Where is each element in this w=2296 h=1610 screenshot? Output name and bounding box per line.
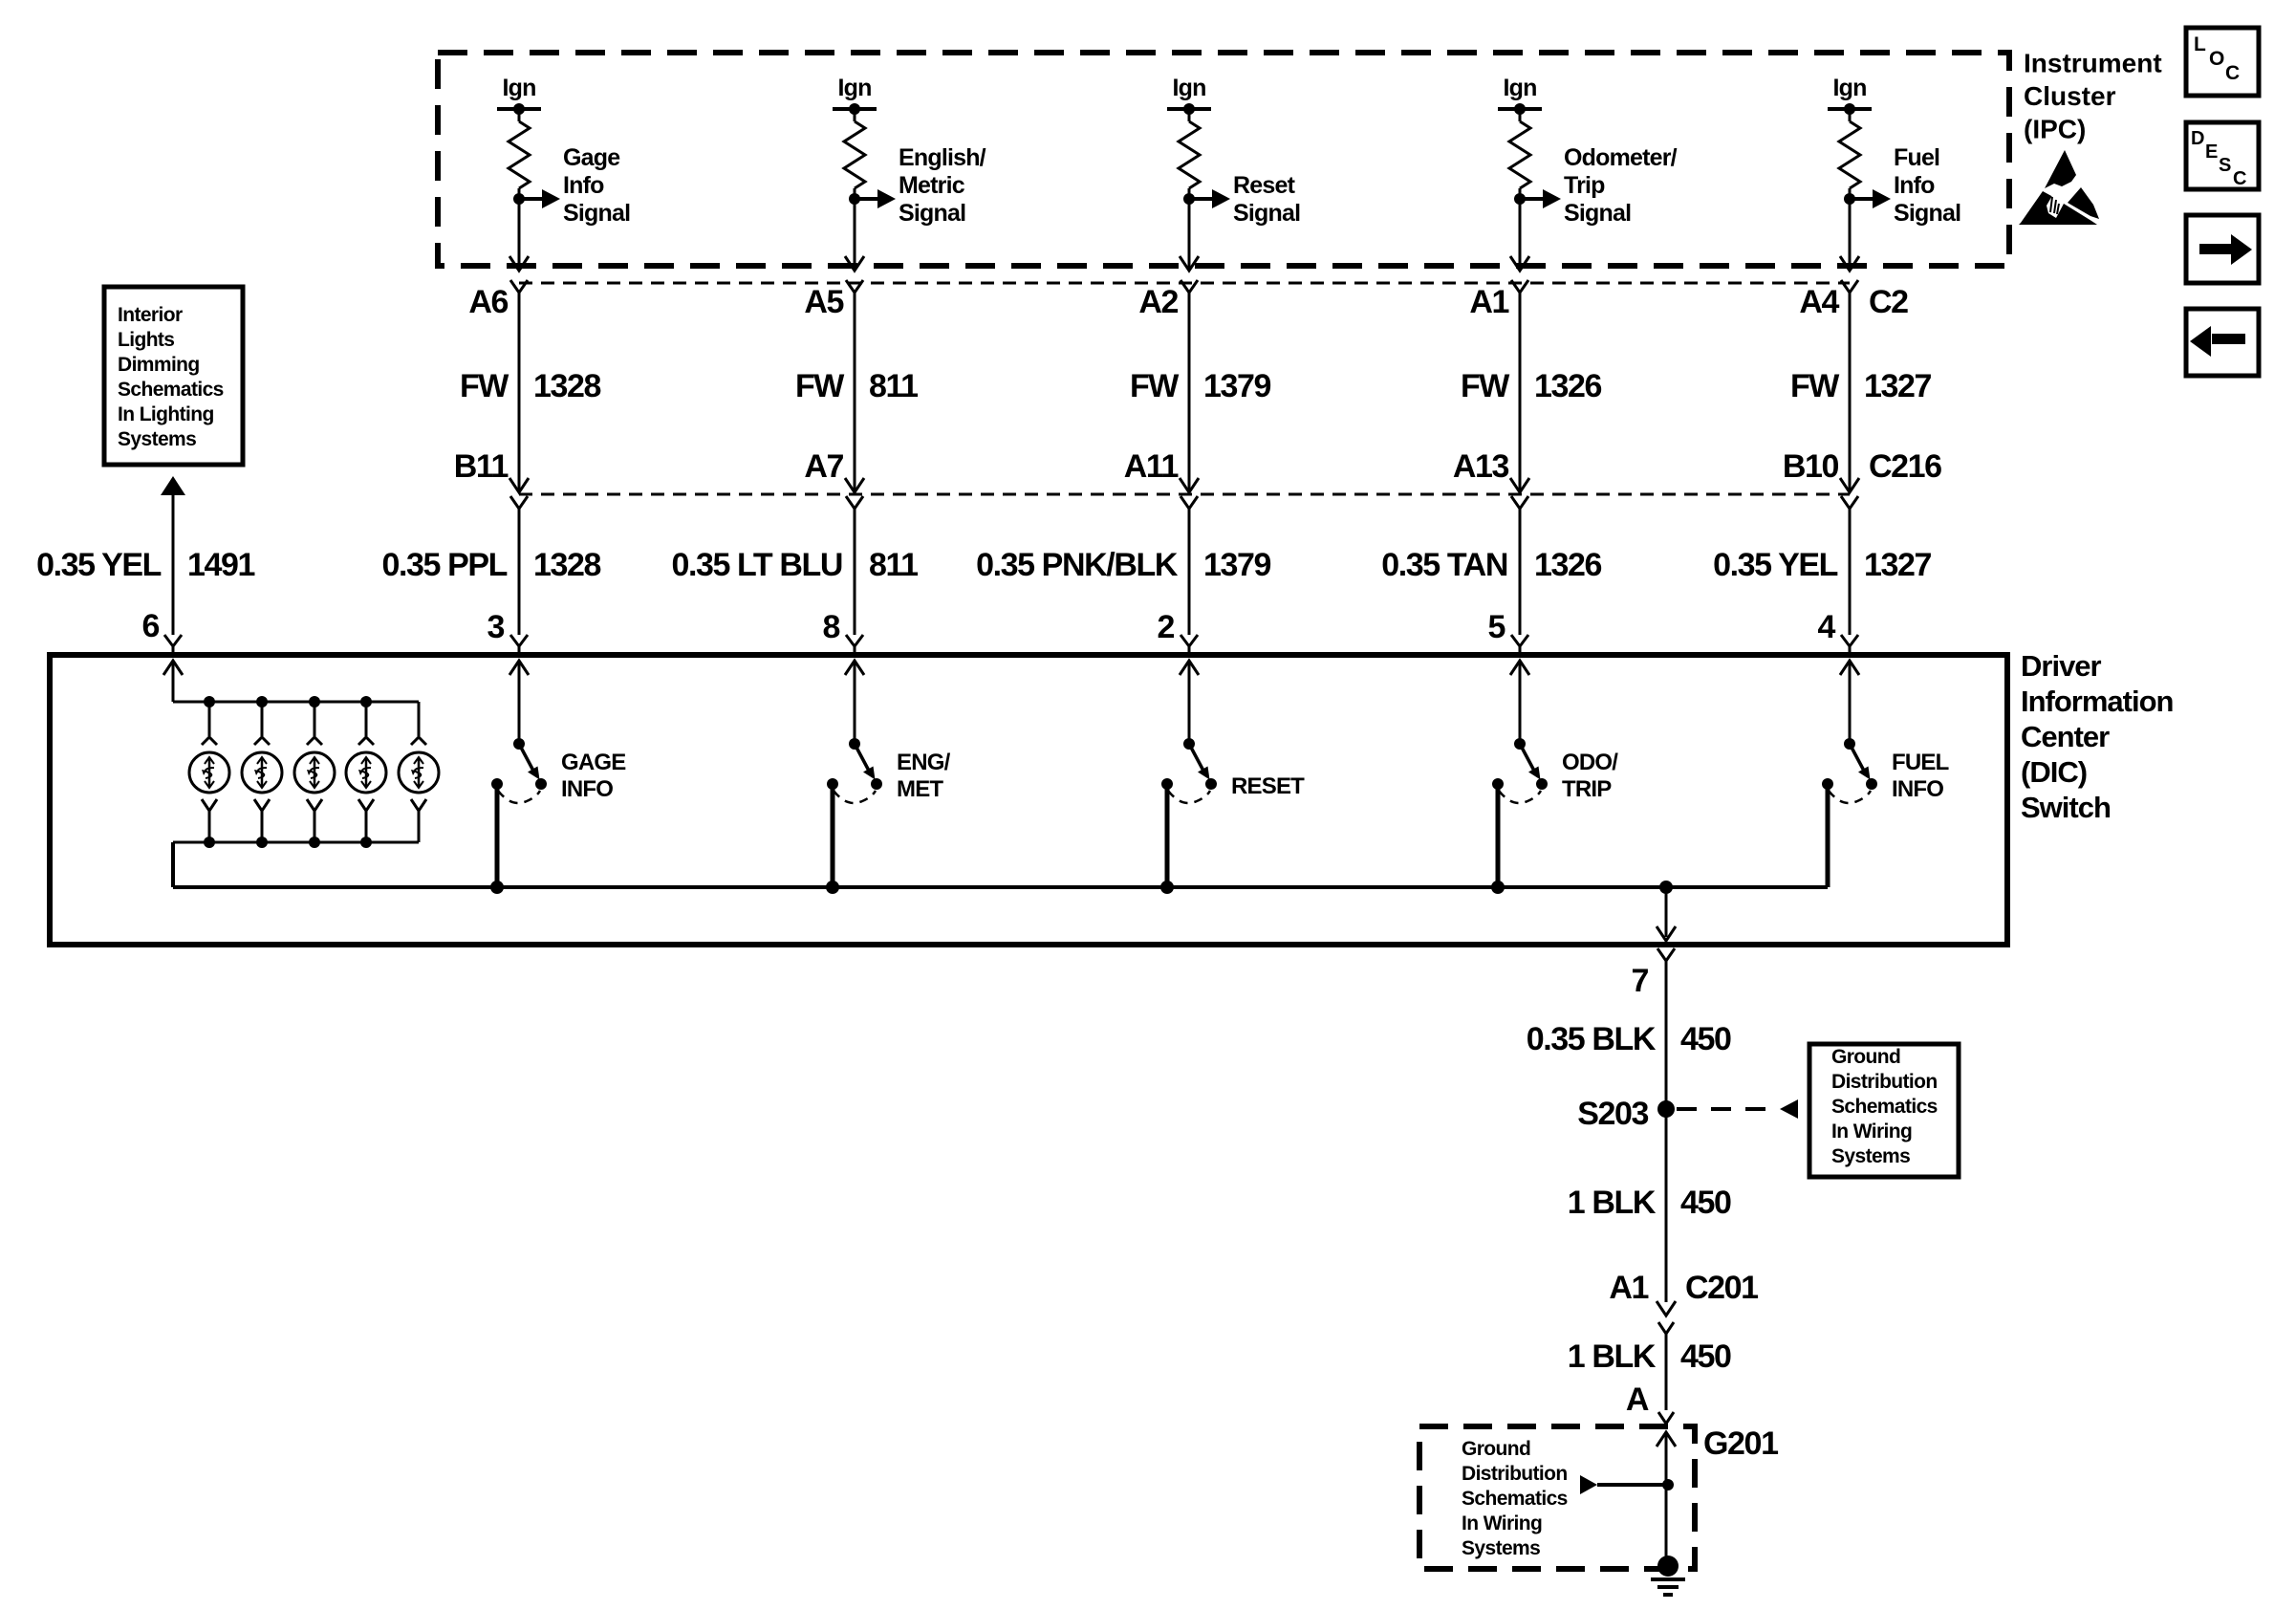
svg-text:A1: A1 — [1469, 284, 1508, 320]
svg-text:0.35 TAN: 0.35 TAN — [1381, 547, 1507, 583]
svg-text:A4: A4 — [1799, 284, 1839, 320]
svg-text:FW: FW — [1461, 368, 1510, 404]
svg-text:MET: MET — [897, 776, 943, 802]
svg-text:L: L — [2194, 33, 2206, 55]
pin A7 fork below C216 line — [846, 496, 863, 509]
svg-text:Fuel: Fuel — [1894, 144, 1939, 171]
svg-text:FW: FW — [1130, 368, 1180, 404]
signal tap arrow and label (Gage Info Signal) — [513, 144, 630, 227]
label FW — [1130, 368, 1180, 404]
wire 0.35 YEL 1327 (column 5) — [1849, 509, 1852, 635]
pin label A7 — [804, 448, 843, 485]
label 1327 (FW) — [1864, 368, 1932, 404]
svg-text:811: 811 — [869, 547, 918, 583]
interior lights box text — [118, 304, 224, 450]
pin label B10 — [1783, 448, 1839, 485]
svg-text:Schematics: Schematics — [1831, 1096, 1938, 1118]
resistor R4 inside IPC — [1509, 109, 1530, 199]
instrument cluster (IPC) dashed outline box — [438, 53, 2009, 266]
ground distribution reference box G201 (dashed) — [1419, 1426, 1695, 1569]
pin 7 drop inside DIC — [1657, 887, 1676, 941]
icon box back arrow — [2186, 309, 2259, 376]
svg-text:Ground: Ground — [1831, 1046, 1900, 1068]
svg-text:Signal: Signal — [1894, 200, 1960, 227]
svg-text:FW: FW — [1790, 368, 1840, 404]
label 7 — [1631, 963, 1648, 999]
svg-text:G201: G201 — [1703, 1425, 1778, 1462]
connector C2 dashed interface line — [519, 282, 1850, 285]
label C2 — [1869, 284, 1908, 320]
G201 reference arrow — [1580, 1475, 1674, 1494]
svg-text:A1: A1 — [1609, 1270, 1648, 1306]
label C216 — [1869, 448, 1941, 485]
pin B11 fork below C216 line — [510, 496, 528, 509]
DIC common bus wire — [173, 784, 1828, 894]
svg-text:Signal: Signal — [1233, 200, 1300, 227]
svg-text:1 BLK: 1 BLK — [1568, 1338, 1657, 1375]
svg-text:Distribution: Distribution — [1462, 1463, 1568, 1485]
resistor R1 inside IPC — [509, 109, 530, 199]
label G201 — [1703, 1425, 1778, 1462]
svg-text:A11: A11 — [1124, 448, 1179, 485]
node Ign (column 5) — [1828, 75, 1872, 115]
svg-text:Signal: Signal — [899, 200, 965, 227]
illumination lamp 5 in DIC switch — [399, 702, 439, 842]
pin number 6 — [141, 608, 159, 644]
label 450 (0.35 BLK) — [1680, 1021, 1731, 1057]
svg-text:Reset: Reset — [1233, 172, 1296, 199]
svg-text:(IPC): (IPC) — [2024, 115, 2086, 144]
label 0.35 PPL — [381, 547, 507, 583]
signal tap arrow and label (Reset Signal) — [1183, 172, 1300, 227]
label 1 BLK (lower) — [1568, 1338, 1657, 1375]
connector C216 dashed interface line — [519, 493, 1850, 496]
pin label A2 — [1138, 284, 1178, 320]
pin A13 fork below C216 line — [1511, 496, 1528, 509]
label 0.35 TAN — [1381, 547, 1507, 583]
lamp bus drop to common bus — [171, 842, 175, 887]
node Ign (column 3) — [1167, 75, 1211, 115]
pin B10 fork below C216 line — [1841, 496, 1858, 509]
DIC pin 6 fork — [164, 635, 182, 655]
node Ign (column 4) — [1498, 75, 1542, 115]
svg-text:S203: S203 — [1577, 1096, 1648, 1132]
svg-text:Info: Info — [1894, 172, 1935, 199]
label 1327 (harness) — [1864, 547, 1932, 583]
svg-text:D: D — [2191, 128, 2204, 149]
label 0.35 LT BLU — [671, 547, 842, 583]
svg-text:1326: 1326 — [1534, 547, 1602, 583]
label FW — [1461, 368, 1510, 404]
svg-text:0.35 PNK/BLK: 0.35 PNK/BLK — [976, 547, 1179, 583]
svg-text:0.35 LT BLU: 0.35 LT BLU — [671, 547, 842, 583]
pin number 3 — [487, 609, 504, 645]
svg-text:Odometer/: Odometer/ — [1564, 144, 1678, 171]
label 450 (lower 1 BLK) — [1680, 1338, 1731, 1375]
svg-text:ODO/: ODO/ — [1562, 750, 1618, 775]
DIC pin 7 fork — [1657, 948, 1675, 961]
svg-text:5: 5 — [1487, 609, 1505, 645]
svg-text:1328: 1328 — [533, 368, 601, 404]
label 450 (upper 1 BLK) — [1680, 1185, 1731, 1221]
svg-text:Trip: Trip — [1564, 172, 1605, 199]
svg-text:Systems: Systems — [1462, 1537, 1540, 1559]
G201 internal arrow and wire — [1657, 1432, 1676, 1558]
pin A11 fork below C216 line — [1180, 496, 1198, 509]
svg-text:7: 7 — [1631, 963, 1648, 999]
svg-text:1327: 1327 — [1864, 547, 1932, 583]
svg-text:In Lighting: In Lighting — [118, 403, 214, 425]
wire FW 1327 (column 5) — [1840, 293, 1859, 492]
svg-text:Distribution: Distribution — [1831, 1071, 1938, 1093]
label Driver Information Center (DIC) Switch — [2021, 649, 2174, 824]
label FW — [460, 368, 509, 404]
lamp top bus — [173, 701, 419, 704]
label 811 (harness) — [869, 547, 918, 583]
pin label A1 — [1469, 284, 1508, 320]
pin label A5 — [804, 284, 843, 320]
connector C201 pin A1 fork — [1658, 1322, 1674, 1334]
wire FW 1326 (column 4) — [1510, 293, 1529, 492]
switch S2 (ENG//MET) in DIC — [827, 661, 951, 887]
svg-text:2: 2 — [1157, 609, 1174, 645]
signal tap arrow and label (English/ Metric Signal) — [849, 144, 986, 227]
node Ign (column 2) — [833, 75, 877, 115]
svg-text:S: S — [2219, 155, 2231, 176]
svg-text:GAGE: GAGE — [561, 750, 626, 775]
svg-text:Ground: Ground — [1462, 1438, 1530, 1460]
DIC pin 8 fork — [846, 635, 863, 655]
illumination lamp 2 in DIC switch — [242, 696, 282, 848]
pin 6 riser inside DIC with arrow — [163, 661, 183, 702]
label A (G201 pin) — [1626, 1382, 1649, 1418]
svg-text:E: E — [2205, 141, 2218, 163]
svg-text:Switch: Switch — [2021, 791, 2111, 824]
dashed reference arrow from S203 — [1677, 1099, 1798, 1119]
svg-text:A13: A13 — [1453, 448, 1509, 485]
signal tap arrow and label (Odometer/ Trip Signal) — [1514, 144, 1678, 227]
svg-text:Systems: Systems — [118, 428, 196, 450]
svg-text:0.35 YEL: 0.35 YEL — [1713, 547, 1838, 583]
svg-text:Schematics: Schematics — [118, 379, 224, 401]
svg-text:Gage: Gage — [563, 144, 620, 171]
pin number 8 — [822, 609, 839, 645]
svg-text:TRIP: TRIP — [1562, 776, 1612, 802]
svg-text:0.35 PPL: 0.35 PPL — [381, 547, 507, 583]
driver information center (DIC) switch box — [50, 655, 2007, 945]
label 1328 (FW) — [533, 368, 601, 404]
svg-text:In Wiring: In Wiring — [1831, 1120, 1912, 1142]
switch S5 (FUEL/INFO) in DIC — [1822, 661, 1949, 887]
label 1326 (FW) — [1534, 368, 1602, 404]
icon box DESC — [2186, 122, 2259, 189]
wire 0.35 PNK/BLK 1379 (column 3) — [1188, 509, 1191, 635]
label 0.35 YEL — [36, 547, 162, 583]
svg-text:Signal: Signal — [1564, 200, 1631, 227]
svg-text:A6: A6 — [468, 284, 508, 320]
ground distribution schematics reference box (solid) — [1809, 1044, 1959, 1177]
svg-text:1379: 1379 — [1203, 547, 1271, 583]
label FW — [795, 368, 845, 404]
lamp bottom bus — [173, 841, 419, 844]
illumination lamp 4 in DIC switch — [346, 696, 386, 848]
svg-text:Cluster: Cluster — [2024, 81, 2116, 111]
label 0.35 BLK — [1527, 1021, 1657, 1057]
svg-text:ENG/: ENG/ — [897, 750, 951, 775]
wire 0.35 PPL 1328 (column 1) — [518, 509, 521, 635]
wire 0.35 YEL 1491 to interior lights box — [161, 476, 185, 635]
svg-text:8: 8 — [822, 609, 839, 645]
DIC pin 2 fork — [1180, 635, 1198, 655]
svg-text:450: 450 — [1680, 1338, 1731, 1375]
svg-text:450: 450 — [1680, 1021, 1731, 1057]
switch S1 (GAGE/INFO) in DIC — [491, 661, 626, 887]
DIC pin 4 fork — [1841, 635, 1858, 655]
svg-text:Metric: Metric — [899, 172, 965, 199]
svg-text:0.35 BLK: 0.35 BLK — [1527, 1021, 1657, 1057]
svg-text:FUEL: FUEL — [1892, 750, 1949, 775]
wire from R4 to IPC pin — [1510, 199, 1529, 271]
svg-text:Information: Information — [2021, 685, 2174, 718]
svg-text:Center: Center — [2021, 720, 2110, 753]
pin A1 fork below C2 line — [1511, 280, 1528, 293]
label 1328 (harness) — [533, 547, 601, 583]
svg-text:Ign: Ign — [837, 75, 871, 101]
svg-text:Ign: Ign — [502, 75, 535, 101]
svg-text:4: 4 — [1817, 609, 1835, 645]
pin number 4 — [1817, 609, 1835, 645]
label 1379 (FW) — [1203, 368, 1271, 404]
svg-text:Dimming: Dimming — [118, 354, 200, 376]
svg-text:Ign: Ign — [1832, 75, 1866, 101]
icon box LOC — [2186, 28, 2259, 96]
svg-text:English/: English/ — [899, 144, 986, 171]
svg-text:O: O — [2209, 48, 2224, 70]
svg-text:Ign: Ign — [1172, 75, 1205, 101]
svg-text:Lights: Lights — [118, 329, 174, 351]
svg-text:In Wiring: In Wiring — [1462, 1512, 1542, 1534]
pin A2 fork below C2 line — [1180, 280, 1198, 293]
resistor R5 inside IPC — [1839, 109, 1860, 199]
splice S203 — [1657, 1100, 1675, 1118]
illumination lamp 3 in DIC switch — [294, 696, 335, 848]
svg-text:Systems: Systems — [1831, 1145, 1910, 1167]
svg-text:1327: 1327 — [1864, 368, 1932, 404]
label C201 — [1685, 1270, 1758, 1306]
svg-text:B10: B10 — [1783, 448, 1839, 485]
svg-text:Ign: Ign — [1503, 75, 1536, 101]
label 0.35 PNK/BLK — [976, 547, 1179, 583]
svg-text:C216: C216 — [1869, 448, 1941, 485]
svg-text:A2: A2 — [1138, 284, 1178, 320]
svg-text:450: 450 — [1680, 1185, 1731, 1221]
label 0.35 YEL — [1713, 547, 1838, 583]
svg-text:A5: A5 — [804, 284, 843, 320]
pin label A4 — [1799, 284, 1839, 320]
svg-text:INFO: INFO — [1892, 776, 1943, 802]
svg-text:0.35 YEL: 0.35 YEL — [36, 547, 162, 583]
signal tap arrow and label (Fuel Info Signal) — [1844, 144, 1960, 227]
svg-text:Interior: Interior — [118, 304, 183, 326]
svg-text:C2: C2 — [1869, 284, 1908, 320]
svg-text:1328: 1328 — [533, 547, 601, 583]
svg-text:1379: 1379 — [1203, 368, 1271, 404]
pin number 2 — [1157, 609, 1174, 645]
resistor R3 inside IPC — [1179, 109, 1200, 199]
svg-text:1491: 1491 — [187, 547, 255, 583]
wire from R1 to IPC pin — [509, 199, 529, 271]
svg-text:1 BLK: 1 BLK — [1568, 1185, 1657, 1221]
pin label A6 — [468, 284, 508, 320]
label 811 (FW) — [869, 368, 918, 404]
label Instrument Cluster (IPC) — [2024, 49, 2162, 144]
ground distribution box text — [1831, 1046, 1938, 1167]
wire 0.35 BLK 450 — [1665, 961, 1668, 1101]
wire FW 1379 (column 3) — [1180, 293, 1199, 492]
svg-text:FW: FW — [795, 368, 845, 404]
wire 0.35 LT BLU 811 (column 2) — [854, 509, 856, 635]
wire from R3 to IPC pin — [1180, 199, 1199, 271]
svg-text:3: 3 — [487, 609, 504, 645]
svg-text:Signal: Signal — [563, 200, 630, 227]
pin label A13 — [1453, 448, 1509, 485]
wire FW 811 (column 2) — [845, 293, 864, 492]
illumination lamp 1 in DIC switch — [189, 696, 229, 848]
svg-text:B11: B11 — [454, 448, 509, 485]
switch S4 (ODO//TRIP) in DIC — [1492, 661, 1618, 887]
node Ign (column 1) — [497, 75, 541, 115]
label FW — [1790, 368, 1840, 404]
svg-text:C201: C201 — [1685, 1270, 1758, 1306]
wire FW 1328 (column 1) — [509, 293, 529, 492]
DIC pin 3 fork — [510, 635, 528, 655]
pin number 5 — [1487, 609, 1505, 645]
pin A4 fork below C2 line — [1841, 280, 1858, 293]
label 1379 (harness) — [1203, 547, 1271, 583]
svg-text:Info: Info — [563, 172, 604, 199]
interior lights dimming schematics reference box — [104, 287, 243, 465]
pin label A11 — [1124, 448, 1179, 485]
label S203 — [1577, 1096, 1648, 1132]
label A1 — [1609, 1270, 1648, 1306]
label 1 BLK (upper) — [1568, 1185, 1657, 1221]
svg-text:C: C — [2225, 62, 2240, 84]
svg-text:6: 6 — [141, 608, 159, 644]
DIC pin 5 fork — [1511, 635, 1528, 655]
svg-text:(DIC): (DIC) — [2021, 755, 2087, 789]
wire 1 BLK 450 (upper) — [1657, 1109, 1676, 1316]
svg-text:A: A — [1626, 1382, 1649, 1418]
svg-text:Schematics: Schematics — [1462, 1488, 1568, 1510]
G201 box text — [1462, 1438, 1568, 1559]
svg-text:FW: FW — [460, 368, 509, 404]
wire 0.35 TAN 1326 (column 4) — [1519, 509, 1522, 635]
wire from R5 to IPC pin — [1840, 199, 1859, 271]
svg-text:A7: A7 — [804, 448, 843, 485]
pin A6 fork below C2 line — [510, 280, 528, 293]
pin label B11 — [454, 448, 509, 485]
svg-text:INFO: INFO — [561, 776, 613, 802]
ground symbol G201 — [1651, 1556, 1685, 1595]
pin A5 fork below C2 line — [846, 280, 863, 293]
svg-text:Instrument: Instrument — [2024, 49, 2162, 78]
svg-text:C: C — [2233, 168, 2246, 189]
resistor R2 inside IPC — [844, 109, 865, 199]
ground G201 fork — [1658, 1412, 1674, 1424]
svg-text:1326: 1326 — [1534, 368, 1602, 404]
switch S3 (RESET) in DIC — [1161, 661, 1305, 887]
wire from R2 to IPC pin — [845, 199, 864, 271]
svg-text:RESET: RESET — [1231, 773, 1305, 799]
label 1491 — [187, 547, 255, 583]
wire 1 BLK 450 (lower) — [1665, 1334, 1668, 1410]
icon box forward arrow — [2186, 215, 2259, 283]
svg-text:Driver: Driver — [2021, 649, 2102, 683]
label 1326 (harness) — [1534, 547, 1602, 583]
ESD sensitive device symbol — [2019, 150, 2099, 225]
svg-text:811: 811 — [869, 368, 918, 404]
